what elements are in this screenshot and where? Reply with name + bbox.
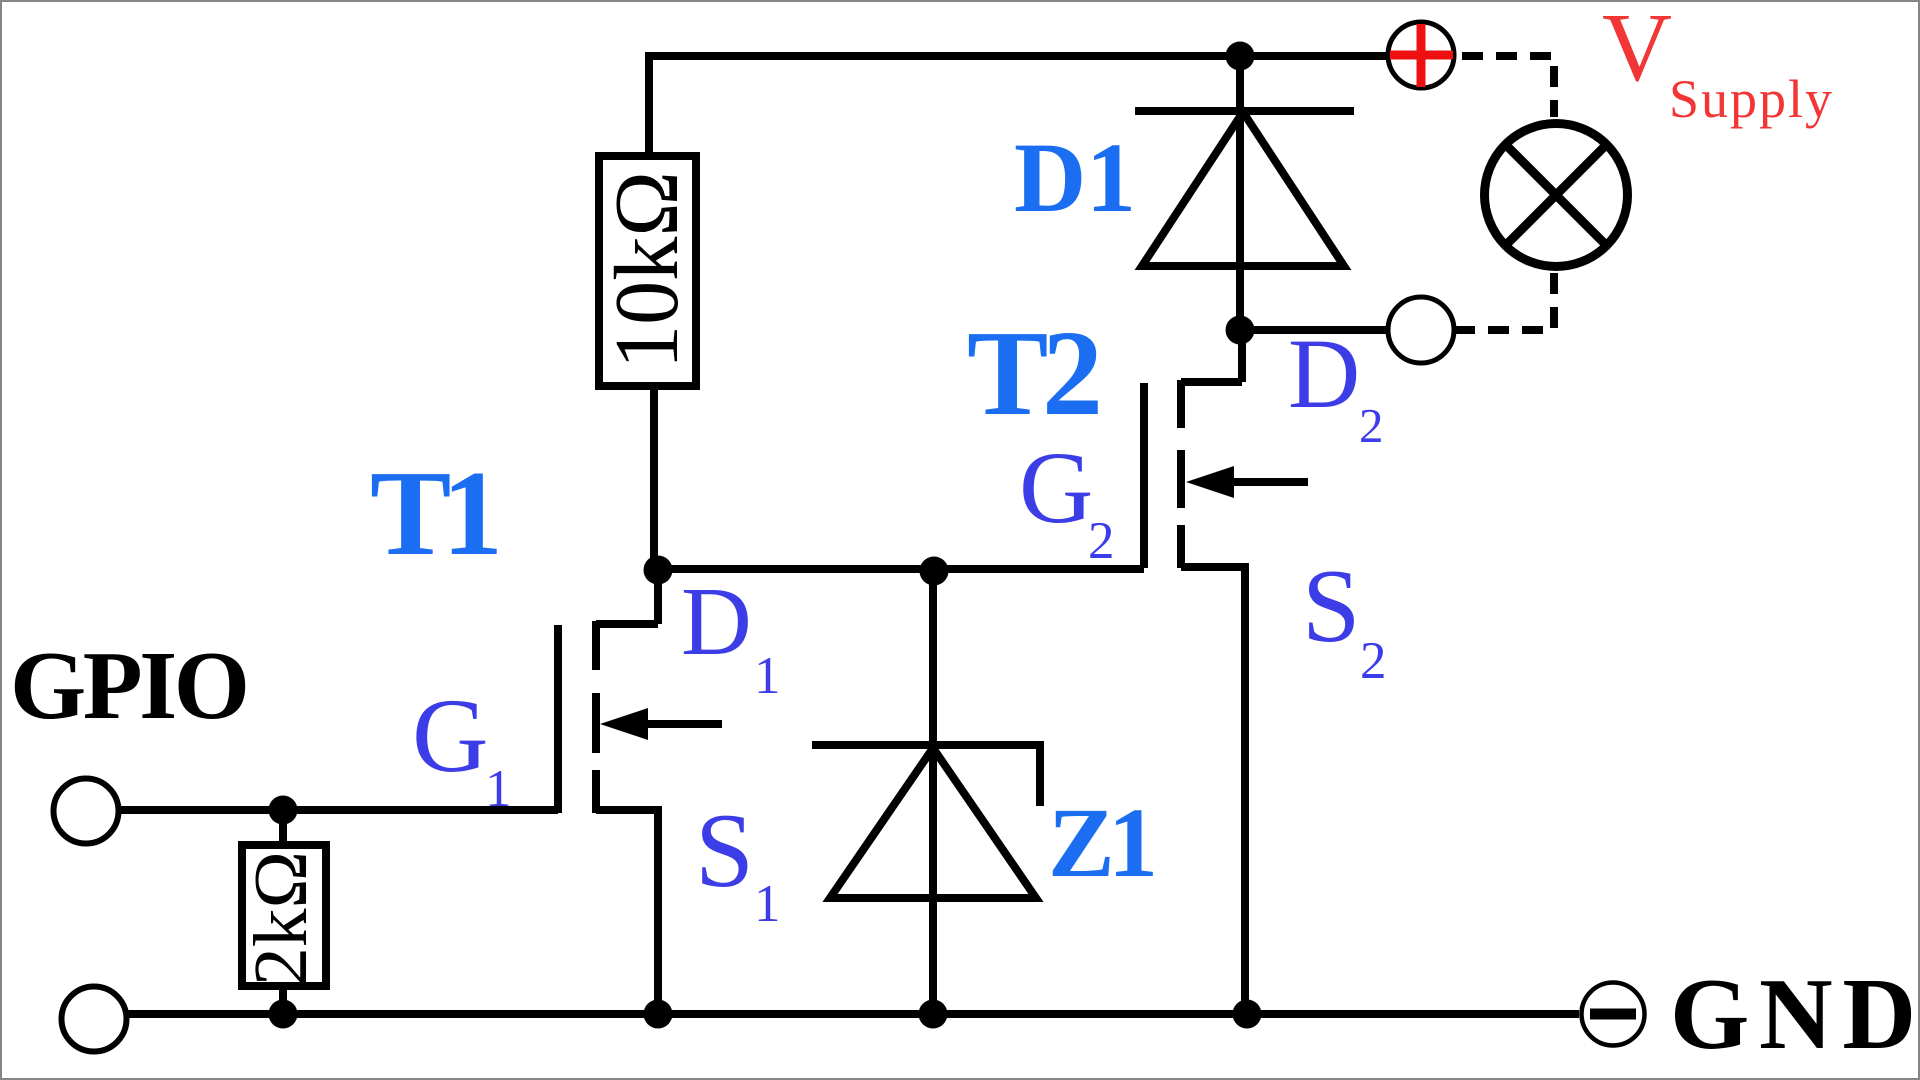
svg-text:T2: T2 — [967, 306, 1103, 441]
svg-text:D1: D1 — [1014, 122, 1136, 233]
svg-text:S: S — [695, 792, 754, 909]
svg-text:D: D — [1288, 318, 1360, 429]
svg-text:S: S — [1302, 547, 1360, 664]
svg-text:G: G — [412, 677, 489, 794]
svg-text:T1: T1 — [370, 446, 503, 581]
svg-text:2kΩ: 2kΩ — [239, 851, 323, 986]
svg-text:1: 1 — [485, 760, 512, 818]
svg-text:2: 2 — [1359, 398, 1384, 453]
svg-text:2: 2 — [1088, 512, 1115, 570]
svg-text:GPIO: GPIO — [10, 632, 250, 740]
svg-text:V: V — [1602, 2, 1672, 101]
svg-text:2: 2 — [1360, 632, 1387, 690]
svg-text:1: 1 — [754, 875, 781, 933]
svg-text:G: G — [1019, 431, 1093, 545]
svg-text:GND: GND — [1670, 958, 1916, 1071]
svg-text:10kΩ: 10kΩ — [596, 171, 697, 369]
svg-text:D: D — [681, 568, 752, 676]
svg-text:Supply: Supply — [1669, 69, 1832, 129]
svg-text:1: 1 — [754, 647, 781, 705]
svg-text:Z1: Z1 — [1048, 787, 1158, 898]
